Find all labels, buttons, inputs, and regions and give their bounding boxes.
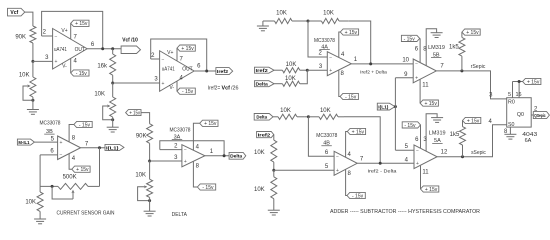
pin 3 stub U5A <box>423 114 437 152</box>
node sSepic pullup <box>461 155 464 158</box>
net flag I(L1) in <box>377 103 395 110</box>
net label Iref2 + Delta <box>360 69 387 75</box>
svg-text:+: + <box>60 140 63 146</box>
power flag +15v U5B <box>420 100 438 107</box>
svg-text:- 15v: - 15v <box>345 94 357 100</box>
svg-text:90K: 90K <box>136 134 147 140</box>
svg-text:I(L1): I(L1) <box>106 145 119 150</box>
ground (U5B pin8) <box>431 33 443 38</box>
pin 4 stub U4B <box>346 132 352 158</box>
pin 4 wire label U6A <box>488 119 492 125</box>
latch U6A 4043 box <box>507 98 538 145</box>
ground (current sensor) <box>34 219 46 224</box>
svg-text:8: 8 <box>348 171 352 177</box>
node U4A out <box>369 62 372 65</box>
power flag +15v U3B <box>72 166 90 173</box>
svg-text:1k5: 1k5 <box>450 132 460 138</box>
svg-text:LM319: LM319 <box>429 131 446 137</box>
pin 3 label U6A <box>489 93 493 99</box>
section label CURRENT SENSOR GAIN <box>57 211 115 217</box>
svg-text:- 15v: - 15v <box>182 89 194 95</box>
pin 11 stub U5B <box>420 79 429 103</box>
wire M-IL1 to pin5 U3B <box>34 136 57 142</box>
svg-text:4: 4 <box>196 145 200 151</box>
resistor 10K-a4 <box>274 76 300 86</box>
chip label MC33078 4A <box>314 38 335 50</box>
power flag +15v U3A <box>200 120 218 127</box>
wire 90K to node3 <box>32 43 34 61</box>
pin10 label U5B <box>402 58 409 64</box>
wire pin6 down to feedback node <box>39 155 41 187</box>
svg-text:+ 15v: + 15v <box>352 129 365 135</box>
wire Iref2 to R 10K-s3 <box>273 135 275 141</box>
op-amp U3A MC33078 <box>182 145 205 167</box>
svg-text:7: 7 <box>85 141 89 147</box>
svg-text:3: 3 <box>489 93 493 99</box>
power flag +15v pullup r <box>462 29 480 36</box>
pin 8 stub U4B <box>346 169 352 195</box>
svg-text:9: 9 <box>404 72 408 78</box>
svg-text:MC33078: MC33078 <box>170 128 191 134</box>
svg-text:Delta: Delta <box>230 154 242 159</box>
svg-text:OUT: OUT <box>75 47 86 53</box>
svg-text:uA741: uA741 <box>54 47 67 53</box>
wire node to pot 10K-2 <box>112 83 114 97</box>
svg-text:Delta: Delta <box>256 82 269 87</box>
svg-text:4: 4 <box>488 119 492 125</box>
net flag Iref2 out <box>216 68 233 75</box>
svg-text:Iref2: Iref2 <box>256 68 269 73</box>
svg-text:+: + <box>416 161 419 167</box>
pin 11 stub U5A <box>421 166 430 189</box>
wire node down to pot 10K <box>32 61 34 77</box>
svg-text:Iref2 - Delta: Iref2 - Delta <box>368 169 397 175</box>
svg-text:V-: V- <box>62 64 67 70</box>
svg-text:6: 6 <box>50 149 54 155</box>
pin 4 stub U2 <box>177 75 184 91</box>
svg-text:5: 5 <box>51 136 55 142</box>
svg-text:+ 15v: + 15v <box>345 30 358 36</box>
op-amp U4A MC33078 <box>327 52 351 76</box>
svg-text:Vcf /10: Vcf /10 <box>122 38 138 44</box>
wire I(L1) to pin9 U5B <box>395 72 413 78</box>
resistor 1k5 pullup s <box>450 121 466 157</box>
node I(L1) tap <box>394 105 397 108</box>
svg-text:4: 4 <box>72 156 76 162</box>
net flag Iref2 in (subtractor) <box>257 132 274 138</box>
pin 8 stub U3B <box>69 125 76 142</box>
svg-text:+ 15v: + 15v <box>425 187 438 193</box>
wire node to pin3 U2 <box>113 77 160 84</box>
svg-text:+: + <box>162 81 165 87</box>
svg-text:3: 3 <box>174 155 178 161</box>
section label DELTA <box>172 212 188 218</box>
ground (adder ref) <box>257 21 269 31</box>
op-amp U4B MC33078 <box>334 151 357 175</box>
svg-text:3: 3 <box>154 77 158 83</box>
svg-text:+ 15v: + 15v <box>76 167 89 173</box>
node U3A out feedback <box>223 154 226 157</box>
wire U4A output to comparator <box>351 57 413 64</box>
feedback wire U1 out to pin2 <box>42 11 103 48</box>
resistor 10K-s3 <box>254 140 277 162</box>
svg-text:−: − <box>184 147 187 153</box>
power flag -15v U3B <box>74 121 92 128</box>
svg-text:V+: V+ <box>167 50 173 56</box>
wire pin6 U3B <box>40 149 58 155</box>
svg-text:−: − <box>55 34 58 40</box>
wire 10K-3 to ground <box>39 211 41 219</box>
svg-text:10K: 10K <box>135 172 146 178</box>
wire 10K-s3 to node <box>273 162 275 170</box>
svg-text:- 15v: - 15v <box>202 185 214 191</box>
resistor 16k <box>97 49 115 75</box>
op-amp U3B MC33078 <box>58 136 81 160</box>
svg-text:10K: 10K <box>276 11 287 17</box>
node divider mid <box>111 82 114 85</box>
pin 6 stub U5A <box>415 125 420 149</box>
svg-text:- 15v: - 15v <box>404 123 416 129</box>
svg-text:MC33078: MC33078 <box>314 38 335 44</box>
power flag +15v U2 <box>177 45 195 52</box>
svg-text:Iref2 + Delta: Iref2 + Delta <box>360 69 387 75</box>
wire U1 output <box>87 42 121 49</box>
op-amp U5B LM319 <box>413 59 436 83</box>
node U3B out <box>98 146 101 149</box>
net flag M-IL1 <box>17 139 34 145</box>
svg-text:MC33078: MC33078 <box>40 120 61 126</box>
svg-text:7: 7 <box>440 64 444 70</box>
node subtractor feedback <box>307 115 310 118</box>
svg-text:1k5: 1k5 <box>449 45 459 51</box>
power flag -15v U2 <box>177 88 195 95</box>
wire U5B output rSepic <box>436 64 506 99</box>
pin 4 stub U3B <box>69 154 76 169</box>
svg-text:−: − <box>336 154 339 160</box>
svg-text:16k: 16k <box>97 64 108 70</box>
svg-text:Iref2: Iref2 <box>258 133 271 138</box>
wire node down to pot 10K-4 <box>149 161 151 179</box>
svg-text:M-IL1: M-IL1 <box>18 140 30 145</box>
ground (U6A pin8) <box>504 134 516 139</box>
svg-text:4: 4 <box>341 52 345 58</box>
net flag Vcf <box>8 8 25 16</box>
wire 10K-s1 to node <box>304 116 308 118</box>
svg-text:−: − <box>162 57 165 63</box>
wire node down to pin6 U4B <box>308 117 334 157</box>
pin 6 stub U5B <box>415 38 420 62</box>
svg-text:−: − <box>329 55 332 61</box>
wire pot2 to ground <box>112 117 114 127</box>
net flag I(L1) out <box>105 144 124 150</box>
pin 2 stub U6A QSepic <box>531 106 538 115</box>
node U1 out divider tap <box>111 47 114 50</box>
chip label LM319 5A <box>429 131 446 145</box>
pin 5 stub U6A <box>508 82 513 99</box>
node rSepic pullup <box>460 69 463 72</box>
svg-text:7: 7 <box>180 56 184 62</box>
wire 90K-2 to node <box>149 143 151 161</box>
ground (U5A pin3) <box>431 118 443 123</box>
wire I(L1) to pin5 U5A <box>395 144 414 150</box>
pin 7 stub U2 <box>177 48 184 62</box>
svg-text:uA741: uA741 <box>162 66 175 72</box>
node U2 out <box>205 70 208 73</box>
svg-text:10K: 10K <box>286 62 297 68</box>
net label Vcf/10 <box>122 38 138 44</box>
power flag -15v U1 <box>71 70 89 77</box>
feedback wire U3A <box>160 141 224 156</box>
ground (delta divider) <box>144 211 156 216</box>
svg-text:+ 15v: + 15v <box>181 46 194 52</box>
wire 10K-a1 to node <box>302 20 308 22</box>
svg-text:10K: 10K <box>94 91 105 97</box>
wire U3B output <box>81 141 105 147</box>
svg-text:MC33078: MC33078 <box>316 133 337 139</box>
power flag -15v U5B <box>401 35 419 42</box>
net flag QSepic <box>533 112 549 119</box>
resistor 10K-s4 <box>254 170 277 199</box>
wire pin2 U1 <box>42 30 53 36</box>
resistor 10K-a2 (feedback) <box>308 11 349 24</box>
svg-text:V+: V+ <box>61 28 67 34</box>
svg-text:6: 6 <box>91 42 95 48</box>
wire U3A output <box>205 149 229 156</box>
resistor 1k5 pullup r <box>449 32 465 71</box>
svg-text:2: 2 <box>43 30 47 36</box>
pin 8 stub U5B <box>423 29 436 66</box>
pin 8 stub U3A <box>193 161 199 187</box>
svg-text:- 15v: - 15v <box>76 71 88 77</box>
svg-text:12: 12 <box>441 150 448 156</box>
svg-text:4: 4 <box>348 152 352 158</box>
net label rSepic <box>471 64 486 70</box>
power flag -15v U5A <box>402 122 420 129</box>
svg-text:1: 1 <box>354 57 358 63</box>
svg-text:/26: /26 <box>231 85 239 91</box>
resistor 10K-s1 <box>273 108 304 119</box>
power flag +15v U5A <box>421 186 439 193</box>
pin 8 stub U4A <box>339 70 345 97</box>
wire node to pin3 U1 <box>33 55 53 61</box>
power flag +15v U4A <box>340 29 358 36</box>
svg-text:+ 15v: + 15v <box>204 121 217 127</box>
wire pot to ground <box>32 97 34 110</box>
svg-text:- 15v: - 15v <box>352 193 364 199</box>
wire 500K row right <box>88 185 100 187</box>
wire 500K row left <box>40 185 58 187</box>
pin 8 stub U6A <box>504 127 510 135</box>
wire 10K-a4 up to node <box>300 70 308 84</box>
potentiometer 10K (Vcf divider) <box>19 73 36 101</box>
resistor 10K-s2 (feedback) <box>308 108 344 119</box>
node pin16 join <box>518 80 521 83</box>
pin 7 stub U1 <box>71 23 78 40</box>
op-amp U1 uA741 <box>53 28 88 70</box>
svg-text:10: 10 <box>402 58 409 64</box>
svg-text:10K: 10K <box>285 76 296 82</box>
svg-text:8: 8 <box>72 136 76 142</box>
ground (divider 2) <box>107 127 119 132</box>
wire node down to pin2 U4A <box>308 21 327 57</box>
svg-text:+: + <box>415 76 418 82</box>
wire to resistor 10K-3 <box>39 186 41 192</box>
svg-text:Vcf: Vcf <box>10 10 18 16</box>
net flag Delta in (subtractor) <box>254 114 273 121</box>
node adder feedback top <box>307 20 310 23</box>
wire 10K-s4 to ground <box>273 199 275 211</box>
svg-text:3: 3 <box>45 55 49 61</box>
svg-text:8: 8 <box>341 71 345 77</box>
svg-text:Vcf: Vcf <box>222 85 231 91</box>
pin 4 stub U4A <box>339 32 345 58</box>
pin 4 stub U1 <box>71 58 78 73</box>
resistor 10K-a1 <box>275 11 303 24</box>
wire U5A output sSepic <box>437 125 507 157</box>
svg-text:5: 5 <box>325 164 329 170</box>
svg-text:Q0: Q0 <box>517 112 524 118</box>
svg-text:+: + <box>336 168 339 174</box>
svg-text:−: − <box>415 62 418 68</box>
svg-text:+: + <box>329 68 332 74</box>
wire pot4 to ground <box>149 197 151 211</box>
node delta divider <box>148 160 151 163</box>
svg-text:ADDER ----- SUBTRACTOR ----- H: ADDER ----- SUBTRACTOR ----- HYSTERESIS … <box>330 209 480 215</box>
svg-text:4043: 4043 <box>522 132 537 138</box>
svg-text:4: 4 <box>74 59 78 65</box>
svg-text:5: 5 <box>508 92 511 98</box>
node pot4 wiper join <box>148 199 151 202</box>
node subtractor ref <box>272 169 275 172</box>
resistor 90K (input divider) <box>15 26 36 43</box>
svg-text:10K: 10K <box>254 187 265 193</box>
op-amp U5A LM319 <box>414 145 437 169</box>
wire node to pin5 U4B <box>274 164 334 170</box>
svg-text:Iref2: Iref2 <box>217 69 229 74</box>
pin4 label U5A <box>405 157 409 163</box>
svg-text:8: 8 <box>196 164 200 170</box>
node pot2 wiper join <box>111 118 114 121</box>
svg-text:16: 16 <box>516 92 522 98</box>
wire gnd to R 10K-a1 <box>263 20 275 22</box>
svg-text:R0: R0 <box>508 100 515 106</box>
svg-text:6: 6 <box>415 47 419 53</box>
svg-text:CURRENT SENSOR GAIN: CURRENT SENSOR GAIN <box>57 211 115 217</box>
wire pin2 U2 <box>151 53 160 59</box>
op-amp U2 uA741 <box>160 50 195 91</box>
svg-text:2: 2 <box>151 53 155 59</box>
pin 4 stub U3A <box>193 123 199 150</box>
svg-text:7: 7 <box>360 157 364 163</box>
chip label MC33078 4B <box>316 133 337 146</box>
svg-text:+ 15v: + 15v <box>75 21 88 27</box>
resistor 10K-3 <box>25 192 43 211</box>
potentiometer 10K-2 <box>94 91 115 119</box>
wire node to pin3 U3A <box>150 155 182 161</box>
svg-text:2: 2 <box>319 50 323 56</box>
svg-text:DELTA: DELTA <box>172 212 188 218</box>
power flag +15v pullup s <box>463 117 481 124</box>
svg-text:3: 3 <box>423 137 427 143</box>
svg-text:I(L1): I(L1) <box>378 105 389 110</box>
wire feedback to out 4B <box>344 117 380 164</box>
svg-text:500K: 500K <box>63 175 77 181</box>
svg-text:3: 3 <box>319 64 323 70</box>
svg-text:LM319: LM319 <box>428 45 445 51</box>
svg-text:+ 15v: + 15v <box>129 111 140 117</box>
wire +15v to R 90K-2 <box>141 113 150 124</box>
ground (subtractor ref) <box>268 210 280 215</box>
svg-text:Delta: Delta <box>256 115 267 120</box>
node adder input sum <box>306 69 309 72</box>
svg-text:5: 5 <box>405 144 409 150</box>
svg-text:−: − <box>60 153 63 159</box>
wire pin2 U3A <box>160 143 182 149</box>
power flag +15v U4B <box>347 128 365 135</box>
net flag Delta out <box>229 152 246 159</box>
node pot wiper join <box>31 99 34 102</box>
svg-text:+ 15v: + 15v <box>467 118 480 124</box>
svg-text:QSepic: QSepic <box>534 113 546 118</box>
svg-text:2: 2 <box>174 143 178 149</box>
ground (Vcf divider) <box>27 110 39 115</box>
svg-text:- 15v: - 15v <box>404 36 416 42</box>
svg-text:S0: S0 <box>508 122 515 128</box>
net label Iref2 equation <box>208 85 239 91</box>
net label sSepic <box>471 150 486 156</box>
potentiometer 10K-4 <box>135 172 152 200</box>
svg-text:6: 6 <box>197 64 201 70</box>
chip label MC33078 3B <box>40 120 61 134</box>
node U1 out feedback <box>101 47 104 50</box>
wire feedback right drop <box>99 148 101 187</box>
net flag Iref2 in (adder) <box>255 67 275 73</box>
wire 10K-a3 to node <box>300 69 308 71</box>
wire U2 output <box>194 64 216 71</box>
node U4B out <box>379 162 382 165</box>
resistor 90K-2 <box>136 124 153 144</box>
svg-text:OUT: OUT <box>182 66 193 72</box>
svg-text:+ 15v: + 15v <box>466 30 479 36</box>
node junction pin3 U1 <box>31 60 34 63</box>
power flag -15v U4B <box>347 192 365 199</box>
wire U4B output to comparator <box>357 157 414 164</box>
svg-text:+ 15v: + 15v <box>527 79 540 85</box>
svg-text:10K: 10K <box>254 150 265 156</box>
svg-text:10K: 10K <box>25 200 36 206</box>
wire node to pin3 U4A <box>307 64 327 70</box>
feedback wire U2 out to pin2 <box>151 39 207 71</box>
svg-text:11: 11 <box>422 83 429 89</box>
svg-text:+: + <box>55 59 58 65</box>
svg-text:1: 1 <box>210 149 214 155</box>
wire 16k to node <box>112 75 114 83</box>
wire feedback to out <box>349 21 371 64</box>
svg-text:7: 7 <box>74 34 78 40</box>
net flag Vcf/10 (empty) <box>121 46 140 54</box>
svg-text:10K: 10K <box>280 108 291 114</box>
svg-text:sSepic: sSepic <box>471 150 486 156</box>
power flag -15v U3A <box>197 184 215 191</box>
svg-text:−: − <box>416 148 419 154</box>
svg-text:90K: 90K <box>15 34 26 40</box>
wire I(L1) bus <box>394 78 396 150</box>
svg-text:4: 4 <box>405 157 409 163</box>
svg-text:10K: 10K <box>320 108 331 114</box>
svg-text:+: + <box>184 159 187 165</box>
chip label LM319 5B <box>428 45 445 58</box>
svg-text:10K: 10K <box>323 11 334 17</box>
